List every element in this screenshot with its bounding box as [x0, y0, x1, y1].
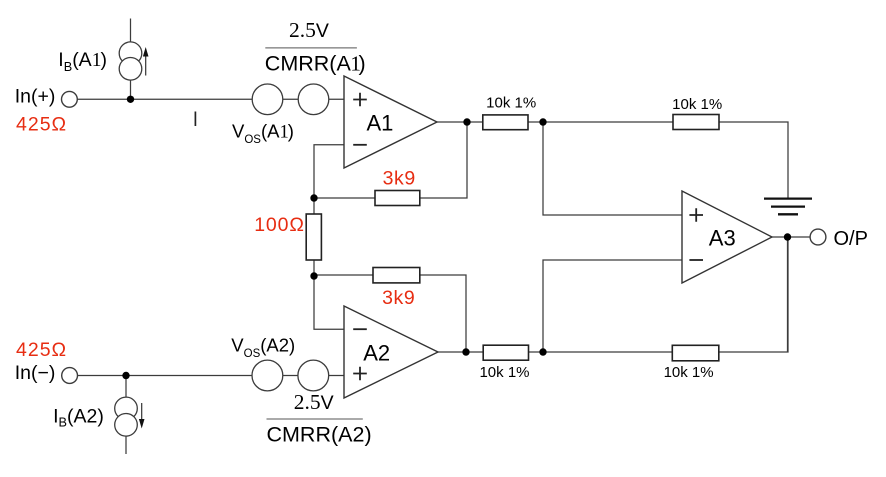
svg-text:A1: A1 — [367, 111, 394, 136]
svg-text:10k 1%: 10k 1% — [672, 96, 722, 113]
svg-text:In(−): In(−) — [15, 362, 56, 384]
svg-text:O/P: O/P — [834, 228, 868, 250]
svg-text:10k 1%: 10k 1% — [664, 364, 714, 381]
svg-text:A3: A3 — [709, 226, 736, 251]
svg-text:2.5V: 2.5V — [289, 18, 329, 42]
svg-text:3k9: 3k9 — [383, 167, 416, 189]
svg-text:10k 1%: 10k 1% — [479, 364, 529, 381]
svg-text:In(+): In(+) — [15, 85, 56, 107]
svg-text:100Ω: 100Ω — [254, 214, 305, 236]
svg-text:CMRR(A2): CMRR(A2) — [267, 423, 372, 447]
svg-text:10k 1%: 10k 1% — [486, 94, 536, 111]
svg-text:425Ω: 425Ω — [16, 114, 67, 136]
svg-text:A2: A2 — [363, 341, 390, 366]
svg-text:3k9: 3k9 — [382, 287, 415, 309]
svg-text:2.5V: 2.5V — [294, 390, 334, 414]
svg-text:CMRR(A1): CMRR(A1) — [265, 51, 366, 75]
svg-text:425Ω: 425Ω — [16, 339, 67, 361]
